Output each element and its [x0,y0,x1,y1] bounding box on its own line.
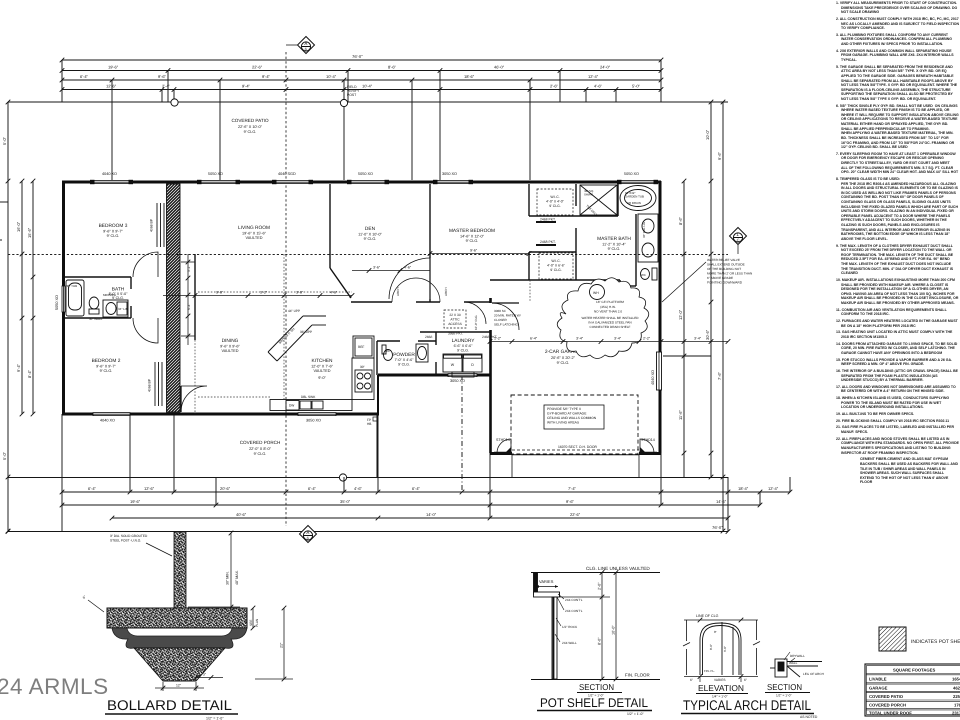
svg-text:4'-0" X 4'-0": 4'-0" X 4'-0" [546,200,564,204]
garage gyp dashed rect [511,395,638,454]
exterior wall bottom laundry/powder [378,374,491,377]
svg-text:9'-6" X 9'-7": 9'-6" X 9'-7" [96,365,116,369]
svg-text:4040 XO: 4040 XO [651,370,655,385]
window labels top wall [102,172,639,176]
svg-text:22'-0" X 8'-0": 22'-0" X 8'-0" [249,447,272,451]
svg-text:36" DBL LAV: 36" DBL LAV [642,221,646,238]
svg-text:9' CLG.: 9' CLG. [549,204,560,208]
svg-text:GYP-BOARD AT GARAGE: GYP-BOARD AT GARAGE [547,412,587,416]
section marker diamond top [298,37,315,54]
svg-text:9'-4": 9'-4" [16,363,21,372]
laundry window dim [425,335,497,339]
svg-text:2668: 2668 [425,335,433,339]
svg-text:COVERED PORCH: COVERED PORCH [240,440,281,445]
svg-text:STEEL POST -U.N.O.: STEEL POST -U.N.O. [110,539,141,543]
ceiling line [531,572,660,574]
svg-text:WATER RELIEF VALVE: WATER RELIEF VALVE [707,258,740,262]
svg-text:COVERED PATIO: COVERED PATIO [231,118,269,123]
svg-text:3050 XO: 3050 XO [450,379,465,383]
general notes column [836,1,959,487]
svg-text:9' CLG.: 9' CLG. [244,130,257,134]
attic access dashed [444,310,466,328]
svg-text:4040 XO: 4040 XO [102,172,117,176]
door arc bedroom2 [133,318,158,343]
svg-text:6" ABOVE GRADE: 6" ABOVE GRADE [707,276,733,280]
door arc master [389,258,430,299]
svg-text:POINTING DOWNWARD: POINTING DOWNWARD [707,281,743,285]
hall to master bath wall [490,279,620,281]
svg-text:GARAGE: GARAGE [869,686,888,691]
fridge [353,336,374,358]
svg-text:MIR/MED: MIR/MED [103,293,117,297]
left dimension lines [7,102,9,531]
bath fixtures [66,280,128,317]
svg-text:MORE THAN 2' OR LESS THAN: MORE THAN 2' OR LESS THAN [707,272,752,276]
svg-text:6": 6" [744,678,747,682]
svg-text:9'-0": 9'-0" [318,376,326,380]
svg-text:1654: 1654 [952,677,960,682]
svg-text:FIN. FLOOR: FIN. FLOOR [625,673,650,678]
svg-text:BEDROOM 2: BEDROOM 2 [92,358,121,364]
svg-text:SECTION: SECTION [579,682,614,692]
exterior wall left [62,181,65,414]
svg-text:18'-6": 18'-6" [464,74,475,79]
window symbols top wall [93,181,655,184]
svg-text:8'-0": 8'-0" [598,637,602,645]
svg-text:6'-4": 6'-4" [308,486,317,491]
svg-text:12": 12" [176,684,182,688]
svg-text:VAULTED: VAULTED [246,236,263,240]
master wic wall [528,184,530,216]
svg-text:ARCH: ARCH [396,287,400,296]
svg-text:NO VENT THAN 2.0: NO VENT THAN 2.0 [594,310,622,314]
master wc wall [635,262,637,286]
svg-text:22'-6" X 10'-0": 22'-6" X 10'-0" [238,125,263,129]
svg-text:5050 XO: 5050 XO [624,172,639,176]
powder fixtures [382,344,428,362]
svg-text:40'-6": 40'-6" [236,512,247,517]
svg-text:FIN. FL.: FIN. FL. [704,669,715,673]
hall wall at dining [194,254,196,340]
water heater circle [590,285,605,300]
pot shelf dims [560,570,618,681]
svg-text:12'-4": 12'-4" [768,486,779,491]
svg-text:COVERED PATIO: COVERED PATIO [869,694,904,699]
clg line [684,619,758,621]
shower with X [580,185,617,215]
bottom extension verticals [61,414,63,531]
svg-text:3'-1": 3'-1" [187,265,191,272]
svg-text:8": 8" [714,630,717,634]
svg-text:2'-0": 2'-0" [598,582,602,590]
svg-text:MASTER BATH: MASTER BATH [597,236,631,242]
dimension line top row2 [62,70,661,72]
bottom dimension row1 [62,491,790,493]
svg-text:12'-6": 12'-6" [106,84,117,89]
svg-text:14'-6" X 12'-0": 14'-6" X 12'-0" [460,235,485,239]
svg-text:9' CLG.: 9' CLG. [364,237,377,241]
kitchen dotted layout lines [195,254,352,414]
svg-text:18'-4": 18'-4" [738,486,749,491]
section cut dashed line vertical [285,52,287,526]
svg-text:3": 3" [203,673,207,677]
svg-text:7'-4": 7'-4" [568,486,577,491]
svg-text:1/2" ROCK: 1/2" ROCK [562,625,578,629]
svg-text:6'-4": 6'-4" [80,74,89,79]
kitchen counters [268,316,374,411]
svg-text:462: 462 [953,686,960,691]
svg-text:TOTAL UNDER ROOF: TOTAL UNDER ROOF [869,711,912,716]
dishwasher [286,401,299,411]
svg-text:24'-0": 24'-0" [600,65,611,70]
svg-text:10'-4": 10'-4" [362,84,373,89]
master bedroom left wall [429,184,431,258]
svg-text:9' CLG.: 9' CLG. [608,247,621,251]
svg-text:PLAN: PLAN [255,618,259,627]
svg-text:2468 PKT.: 2468 PKT. [540,240,556,244]
svg-text:1/2" = 1'-0": 1/2" = 1'-0" [206,717,224,720]
right dimension lines [710,102,712,477]
svg-text:6'-4": 6'-4" [412,486,421,491]
svg-text:8'-4": 8'-4" [27,369,32,378]
svg-text:BEDROOM 3: BEDROOM 3 [99,223,128,229]
svg-text:5'-0": 5'-0" [2,451,7,460]
svg-text:2X4 CONT'L: 2X4 CONT'L [565,598,583,602]
svg-text:22 X 30: 22 X 30 [449,313,461,317]
interior dim master [428,251,532,256]
svg-text:2X4 WALL: 2X4 WALL [562,641,577,645]
svg-text:5'-0": 5'-0" [2,136,7,145]
master wc [641,269,650,280]
section marker diamond bottom [300,526,317,543]
svg-text:LIVABLE: LIVABLE [869,677,887,682]
svg-text:10'-0": 10'-0" [705,129,710,140]
window left wall 5050 XO [62,286,65,312]
dimension line top row3 [62,79,661,81]
svg-text:C: C [737,238,740,243]
svg-text:19'-6": 19'-6" [130,499,141,504]
leader labels pot shelf [562,598,583,645]
svg-text:225: 225 [953,694,960,699]
svg-text:BOLLARD DETAIL: BOLLARD DETAIL [107,697,232,713]
pantry diagonal counter [268,316,303,352]
svg-text:9' CLG.: 9' CLG. [466,239,479,243]
svg-text:4'-6": 4'-6" [404,266,412,270]
svg-text:CONNECTED DRAIN SHELF: CONNECTED DRAIN SHELF [590,325,631,329]
interior dimension line kitchen [163,293,354,298]
svg-text:22'-6": 22'-6" [570,512,581,517]
svg-text:35'-0": 35'-0" [340,499,351,504]
svg-text:36" UPP: 36" UPP [300,330,312,334]
svg-text:SQUARE FOOTAGES: SQUARE FOOTAGES [893,668,935,673]
svg-text:44" UPP: 44" UPP [288,309,300,313]
svg-text:48" MAX.: 48" MAX. [235,570,239,585]
svg-text:3'-4": 3'-4" [614,337,622,341]
svg-text:9'-6": 9'-6" [216,291,224,295]
hose bib marker [367,418,371,426]
svg-text:3'-2": 3'-2" [260,291,268,295]
svg-text:18" GFI PLATFORM: 18" GFI PLATFORM [596,300,624,304]
svg-text:CEILING AND WALLS COMMON: CEILING AND WALLS COMMON [547,416,597,420]
svg-text:5'-4": 5'-4" [187,303,191,310]
step wall at porch [377,375,379,414]
bollard leader note [110,534,148,543]
svg-text:ATTIC: ATTIC [450,318,460,322]
svg-text:6": 6" [690,678,693,682]
svg-text:8'-0": 8'-0" [709,644,713,650]
svg-text:30" WALL: 30" WALL [89,317,103,321]
svg-text:WITH LIVING AREAS: WITH LIVING AREAS [547,421,580,425]
garage gyp note box [544,405,604,429]
garage entry door note [494,309,521,327]
svg-text:10'-0": 10'-0" [612,625,616,635]
svg-text:76'-0": 76'-0" [352,54,363,59]
svg-text:14'-6": 14'-6" [716,499,727,504]
arch side walls with break marks [683,620,760,675]
cooktop [355,370,372,392]
svg-text:CLOSER: CLOSER [494,318,507,322]
svg-text:ARCH: ARCH [444,287,448,296]
pot shelf profile [534,573,560,680]
laundry fixtures W D [443,354,482,377]
svg-text:20 MIN. RATED W/: 20 MIN. RATED W/ [494,314,521,318]
garage interior center line dashed [529,280,531,302]
svg-text:10'-4": 10'-4" [326,74,337,79]
toilet bath2 [89,297,99,309]
svg-text:A: A [306,530,309,535]
svg-text:176: 176 [954,703,960,708]
bottom dimension row4 76'-0" [8,531,728,533]
svg-text:VARIES: VARIES [539,579,554,584]
svg-text:SECTION: SECTION [767,682,802,692]
svg-text:4068 BP: 4068 BP [150,218,154,232]
double vanity [638,214,658,262]
svg-text:22'-6": 22'-6" [252,65,263,70]
svg-text:W.I.C.: W.I.C. [551,259,560,263]
powder left wall [376,341,378,375]
svg-text:DINING: DINING [222,338,239,344]
svg-text:SHALL EXTEND OUTSIDE: SHALL EXTEND OUTSIDE [707,263,745,267]
master bath fixtures [580,185,658,280]
svg-text:30": 30" [360,365,365,369]
svg-text:9' CLG.: 9' CLG. [254,452,267,456]
svg-text:6'-8": 6'-8" [723,646,727,652]
svg-text:9'-6": 9'-6" [717,151,722,160]
svg-text:REF: REF [358,345,364,349]
svg-text:BROOM P. SH.: BROOM P. SH. [278,326,296,344]
svg-text:3'-6": 3'-6" [373,266,381,270]
arch opening arcs hall [392,278,416,302]
bath top wall [64,276,131,278]
svg-text:9'-4": 9'-4" [262,74,271,79]
svg-text:4068 BP: 4068 BP [148,378,152,392]
svg-text:SHWR: SHWR [584,193,593,197]
svg-text:PROVIDE 5/8" TYPE X: PROVIDE 5/8" TYPE X [547,407,582,411]
svg-text:5'-0": 5'-0" [632,84,641,89]
svg-text:9' CLG.: 9' CLG. [398,363,410,367]
svg-text:4'-0" X 6'-6": 4'-0" X 6'-6" [547,264,565,268]
svg-text:9' CLG.: 9' CLG. [107,234,120,238]
svg-text:COVERED PORCH: COVERED PORCH [869,703,906,708]
master bath vanity wall [635,214,637,262]
svg-text:DRYWALL: DRYWALL [790,654,805,658]
arch section figure [770,659,822,677]
den left wall [329,184,331,268]
garage front wall [490,452,661,455]
svg-text:9'-6": 9'-6" [470,249,478,253]
svg-text:8'-6": 8'-6" [388,65,397,70]
svg-text:76'-0": 76'-0" [712,525,723,530]
post circle porch [339,474,346,481]
svg-text:2X4 CONT'L: 2X4 CONT'L [565,609,583,613]
svg-text:21": 21" [280,642,284,648]
svg-text:9' CLG.: 9' CLG. [550,268,561,272]
kitchen south counter [270,400,352,411]
svg-text:INDICATES POT SHELF: INDICATES POT SHELF [911,639,960,645]
svg-text:DBL SINK: DBL SINK [301,395,316,399]
bottom dimension row2 [62,504,760,506]
svg-text:4'-6": 4'-6" [594,84,603,89]
svg-text:LIVING ROOM: LIVING ROOM [238,225,270,231]
svg-text:SEE: SEE [249,620,253,626]
svg-text:7'-6": 7'-6" [717,371,722,380]
covered patio roof line [8,101,728,103]
svg-text:9'-6" X 9'-7": 9'-6" X 9'-7" [103,230,123,234]
svg-text:AR DRAIN: AR DRAIN [627,201,641,205]
svg-text:KITCHEN: KITCHEN [311,358,333,364]
covered patio label [231,118,269,134]
svg-text:9'-6" X 9'-6": 9'-6" X 9'-6" [220,345,240,349]
svg-text:9'-4": 9'-4" [242,84,251,89]
svg-text:5050 XO: 5050 XO [208,172,223,176]
bollard post stippled [174,532,186,608]
svg-text:WH: WH [593,291,599,295]
svg-text:D: D [471,363,474,367]
extension lines top [61,60,63,102]
bottom dimension row3 [112,517,728,519]
svg-text:VAULTED: VAULTED [222,349,239,353]
master bath shower walls [576,215,618,217]
svg-text:3'-4": 3'-4" [694,337,702,341]
svg-text:VAULTED: VAULTED [314,369,331,373]
svg-text:(45G) H.W.: (45G) H.W. [600,305,616,309]
svg-text:2'-4": 2'-4" [162,84,171,89]
powder top wall [377,340,400,342]
svg-text:WC: WC [385,349,390,353]
svg-text:AS NOTED: AS NOTED [800,715,818,719]
linen shelves master [600,280,636,296]
svg-text:4'-6": 4'-6" [330,291,338,295]
svg-text:1'-2": 1'-2" [494,337,502,341]
svg-text:5050 XO: 5050 XO [55,295,59,310]
svg-text:IN A GALVANIZED STEEL PAN: IN A GALVANIZED STEEL PAN [588,321,631,325]
svg-text:POST: POST [347,93,356,97]
svg-text:LEG OF ARCH: LEG OF ARCH [803,672,824,676]
svg-text:WATER HEATER SHALL BE INSTALLE: WATER HEATER SHALL BE INSTALLED [581,316,639,320]
slab thickness dim [251,606,256,631]
svg-text:9'-6": 9'-6" [566,499,575,504]
garage entry door arc [492,303,519,330]
svg-text:VARIES: VARIES [714,678,725,682]
svg-text:12'-0" X 7'-6": 12'-0" X 7'-6" [311,365,334,369]
svg-text:3068 PKT.: 3068 PKT. [448,332,463,336]
den bottom wall [351,301,392,303]
svg-text:16070 SECT. O.H. DOOR: 16070 SECT. O.H. DOOR [558,445,598,449]
exterior wall bottom main [62,413,379,416]
arch elevation shape [700,622,741,675]
interior dim den [352,268,430,273]
bollard molding wings [112,628,247,648]
exterior wall top segments [62,181,661,184]
svg-text:19'-6": 19'-6" [108,65,119,70]
svg-text:12'-6": 12'-6" [144,486,155,491]
svg-text:30" MIN.: 30" MIN. [226,571,230,585]
bollard slab stippled [107,608,247,628]
interior dimension vertical at hall [181,254,195,345]
svg-text:15'-6": 15'-6" [27,227,32,238]
laundry top wall [420,331,490,333]
bottom porch line [8,477,728,479]
svg-text:20'-6" X 20'-2": 20'-6" X 20'-2" [551,356,576,360]
covered porch label [240,440,281,456]
porch edge line under entry [376,414,378,477]
door arc dining-bed2 [181,386,207,412]
closet bipass bedroom2 [155,362,162,406]
bollard footing trapezoid stippled [134,648,225,681]
footing height dim 21" [255,606,293,682]
svg-text:6'-4": 6'-4" [88,486,97,491]
svg-text:2'-6": 2'-6" [550,84,559,89]
svg-text:A: A [304,41,307,46]
svg-text:3050 XO: 3050 XO [442,172,457,176]
laundry left wall [435,332,437,345]
svg-text:9' CLG.: 9' CLG. [457,349,469,353]
water heater cloud [557,278,649,359]
tub bath2 [66,280,84,316]
east counter [352,358,374,400]
svg-text:6'-6" X 6'-6": 6'-6" X 6'-6" [454,344,473,348]
wic dashed closets [537,189,573,215]
svg-text:16'-0": 16'-0" [16,221,21,232]
svg-text:3068 SC: 3068 SC [494,309,507,313]
bath bottom wall [64,317,131,319]
svg-text:10'-0" CLG: 10'-0" CLG [474,315,478,330]
svg-text:9'-6": 9'-6" [158,74,167,79]
bath right wall [130,277,132,289]
footing side dim 3" [194,675,223,680]
svg-text:OF THE BUILDING NOT: OF THE BUILDING NOT [707,267,741,271]
svg-text:4040 SGD: 4040 SGD [278,172,296,176]
svg-text:2317: 2317 [952,711,960,716]
svg-text:30'-6": 30'-6" [705,329,710,340]
ceiling break dashed line horizontal [8,254,728,256]
vanity bath2 [103,300,128,317]
svg-text:MASTER BEDROOM: MASTER BEDROOM [449,228,495,234]
garage door header dashed [512,449,639,451]
svg-text:DEN: DEN [365,226,376,232]
svg-text:LINE OF CLG: LINE OF CLG [696,614,719,618]
pocket door labels [536,218,556,246]
garage interior dimension string [488,339,731,344]
garage west wall [489,298,492,453]
svg-text:3050 XO: 3050 XO [306,419,321,423]
garage side window right wall [657,352,662,390]
svg-text:40" TUB: 40" TUB [66,284,77,288]
svg-text:11'-0" X 10'-0": 11'-0" X 10'-0" [358,233,382,237]
svg-text:12'-4": 12'-4" [588,74,599,79]
svg-text:POT SHELF DETAIL: POT SHELF DETAIL [540,696,648,710]
den chamfer wall [330,268,351,298]
